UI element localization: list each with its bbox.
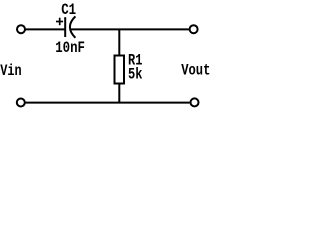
wire top-left segment [25, 28, 65, 30]
terminal circle top-left (Vin input) [17, 25, 25, 33]
svg-text:5k: 5k [128, 66, 143, 84]
terminal circle bottom-right [191, 98, 199, 106]
svg-text:Vout: Vout [181, 62, 210, 80]
wire top-right segment [70, 28, 189, 30]
capacitor C1 [65, 16, 75, 37]
resistor R1 [115, 56, 125, 84]
wire bottom segment [25, 102, 189, 104]
terminal circle bottom-left [17, 99, 25, 107]
wire resistor top lead [118, 29, 120, 55]
wire resistor bottom lead [118, 84, 120, 103]
terminal circle top-right (Vout output) [190, 25, 198, 33]
svg-text:C1: C1 [61, 1, 76, 19]
svg-text:10nF: 10nF [55, 39, 85, 57]
polarity plus mark of C1 [56, 18, 63, 26]
svg-text:Vin: Vin [0, 62, 21, 80]
